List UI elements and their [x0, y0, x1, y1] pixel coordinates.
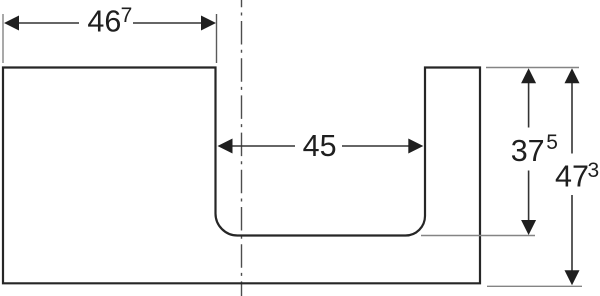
svg-text:3: 3 — [588, 159, 600, 182]
svg-text:5: 5 — [546, 131, 558, 154]
svg-text:47: 47 — [555, 160, 589, 194]
svg-text:45: 45 — [303, 129, 337, 163]
svg-text:46: 46 — [87, 5, 121, 39]
svg-text:7: 7 — [121, 4, 133, 27]
svg-text:37: 37 — [511, 134, 545, 168]
